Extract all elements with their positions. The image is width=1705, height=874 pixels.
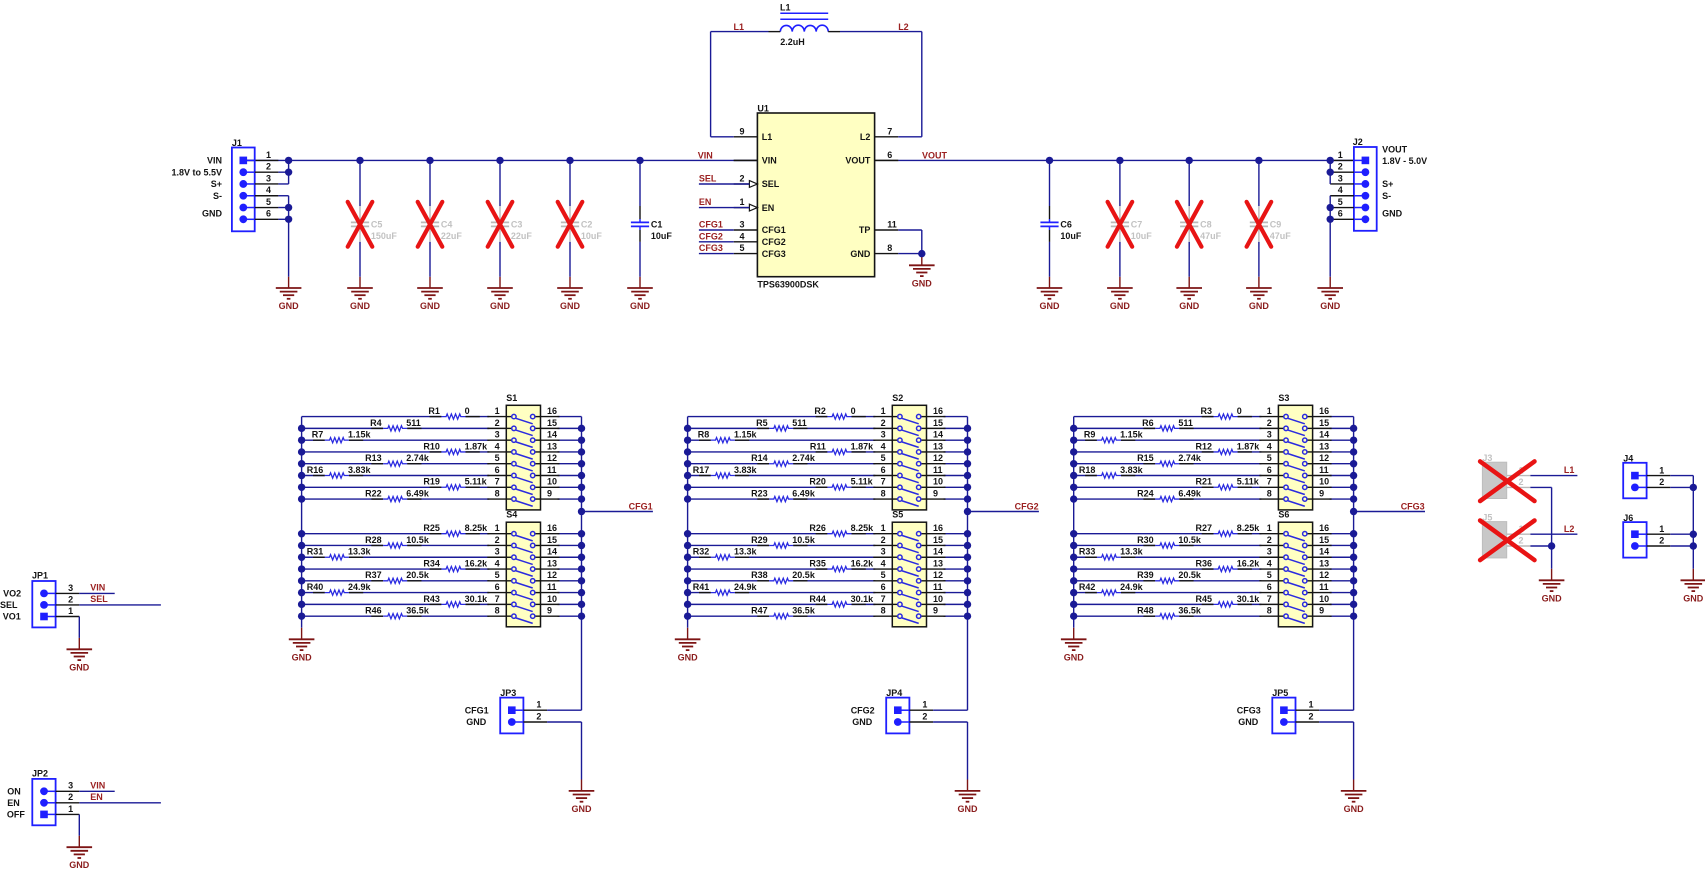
resistor R29 10.5k	[751, 535, 816, 548]
svg-text:GND: GND	[630, 301, 651, 311]
svg-text:14: 14	[933, 430, 943, 440]
svg-text:GND: GND	[466, 717, 487, 727]
wire U1 L1 to inductor	[711, 32, 769, 137]
wire row	[302, 439, 325, 441]
svg-text:6: 6	[1338, 209, 1343, 219]
resistor R2 0	[814, 406, 865, 419]
U1 pin L1 (left)	[734, 126, 773, 142]
U1 pin VOUT (right)	[845, 150, 898, 166]
svg-text:EN: EN	[699, 197, 712, 207]
svg-text:11: 11	[933, 582, 943, 592]
DIP switch S6	[1259, 510, 1331, 627]
capacitor C5 150uF (DNP)	[348, 160, 398, 288]
resistor R22 6.49k	[365, 488, 430, 501]
svg-text:8.25k: 8.25k	[1237, 523, 1261, 533]
resistor R7 1.15k	[312, 430, 372, 443]
resistor R44 30.1k	[809, 594, 874, 607]
ground below J6	[1681, 579, 1705, 581]
capacitor C3 22uF (DNP)	[488, 160, 533, 288]
svg-text:R23: R23	[751, 488, 768, 498]
wire JP5 pin2 to ground	[1319, 722, 1353, 791]
svg-text:R39: R39	[1137, 570, 1154, 580]
svg-text:R20: R20	[809, 477, 826, 487]
svg-text:4: 4	[1267, 441, 1272, 451]
svg-text:5.11k: 5.11k	[851, 477, 874, 487]
wire row	[1074, 556, 1097, 558]
wire row	[302, 580, 384, 582]
svg-text:GND: GND	[350, 301, 371, 311]
svg-text:R18: R18	[1079, 465, 1096, 475]
svg-text:CFG3: CFG3	[699, 243, 723, 253]
svg-text:S2: S2	[892, 393, 903, 403]
wire J6 pin1	[1670, 533, 1693, 535]
svg-text:2: 2	[1267, 535, 1272, 545]
svg-text:L1: L1	[780, 2, 791, 12]
svg-text:12: 12	[547, 453, 557, 463]
svg-text:1.87k: 1.87k	[465, 441, 489, 451]
resistor R27 8.25k	[1195, 523, 1260, 536]
svg-text:36.5k: 36.5k	[406, 606, 430, 616]
junctions on left bus	[1070, 425, 1077, 620]
jumper JP4	[851, 688, 933, 733]
connector J2	[1330, 137, 1427, 231]
svg-text:6: 6	[881, 582, 886, 592]
connector J1	[171, 138, 278, 231]
resistor R31 13.3k	[307, 547, 372, 560]
svg-text:JP2: JP2	[32, 769, 48, 779]
wire row	[1074, 615, 1156, 617]
svg-text:CFG1: CFG1	[762, 225, 786, 235]
resistor R28 10.5k	[365, 535, 430, 548]
svg-text:VO2: VO2	[3, 589, 21, 599]
resistor R24 6.49k	[1137, 488, 1202, 501]
svg-text:6: 6	[495, 582, 500, 592]
svg-text:R44: R44	[809, 594, 826, 604]
wire row	[1074, 451, 1214, 453]
svg-text:9: 9	[547, 488, 552, 498]
svg-text:511: 511	[1178, 418, 1193, 428]
connector J4	[1623, 454, 1670, 499]
svg-text:4: 4	[739, 231, 744, 241]
junction J1 pin6	[285, 216, 292, 223]
svg-text:20.5k: 20.5k	[792, 570, 816, 580]
wire row	[1074, 568, 1214, 570]
connector J3 (DNP)	[1482, 453, 1530, 499]
svg-text:3: 3	[266, 173, 271, 183]
wire row	[302, 556, 325, 558]
jumper JP1	[0, 571, 79, 628]
svg-text:R2: R2	[814, 406, 826, 416]
wire row	[302, 451, 442, 453]
svg-text:2: 2	[1519, 536, 1524, 546]
svg-text:R3: R3	[1200, 406, 1212, 416]
svg-text:15: 15	[547, 418, 557, 428]
svg-text:10: 10	[1319, 594, 1329, 604]
svg-text:13.3k: 13.3k	[1120, 547, 1144, 557]
svg-text:3.83k: 3.83k	[1120, 465, 1144, 475]
U1 pin L2 (right)	[860, 126, 898, 142]
net label SEL at U1	[699, 174, 750, 184]
wire U1 TP to GND	[898, 230, 922, 265]
wire JP1 pin 1 to ground	[78, 617, 80, 650]
wire VIN rail	[247, 159, 758, 161]
svg-text:R33: R33	[1079, 547, 1096, 557]
ground below C1	[627, 287, 653, 289]
svg-text:L1: L1	[734, 22, 745, 32]
resistor R4 511	[370, 418, 421, 431]
svg-text:2: 2	[536, 711, 541, 721]
svg-text:2: 2	[1659, 477, 1664, 487]
svg-text:3: 3	[739, 220, 744, 230]
svg-text:1.15k: 1.15k	[348, 430, 372, 440]
svg-text:5: 5	[881, 453, 886, 463]
wire JP2 pin 1 to ground	[78, 814, 80, 847]
svg-text:GND: GND	[1238, 717, 1259, 727]
svg-text:5.11k: 5.11k	[1237, 477, 1260, 487]
svg-text:R4: R4	[370, 418, 382, 428]
resistor R32 13.3k	[693, 547, 758, 560]
svg-text:9: 9	[1319, 606, 1324, 616]
svg-text:13: 13	[547, 558, 557, 568]
resistor R30 10.5k	[1137, 535, 1202, 548]
svg-text:1: 1	[881, 523, 886, 533]
ground below JP5	[1341, 790, 1367, 792]
svg-text:R27: R27	[1195, 523, 1212, 533]
wire row	[302, 533, 442, 535]
svg-text:3: 3	[68, 781, 73, 791]
svg-text:1: 1	[495, 523, 500, 533]
svg-text:6: 6	[881, 465, 886, 475]
svg-text:L2: L2	[860, 132, 871, 142]
svg-text:VIN: VIN	[207, 156, 222, 166]
wire row	[688, 439, 711, 441]
svg-text:9: 9	[933, 488, 938, 498]
svg-text:GND: GND	[912, 278, 933, 288]
wire row	[688, 580, 770, 582]
junction at C7	[1116, 157, 1123, 164]
svg-text:2: 2	[922, 711, 927, 721]
svg-text:OFF: OFF	[7, 810, 25, 820]
svg-text:6: 6	[1267, 465, 1272, 475]
svg-text:5: 5	[495, 453, 500, 463]
svg-text:4: 4	[1267, 558, 1272, 568]
svg-text:12: 12	[1319, 453, 1329, 463]
svg-text:10uF: 10uF	[1131, 231, 1153, 241]
svg-text:2: 2	[68, 594, 73, 604]
wire right bus of S2/S5	[967, 417, 969, 711]
capacitor C1 10uF	[631, 160, 673, 288]
svg-text:13.3k: 13.3k	[348, 547, 372, 557]
svg-text:SEL: SEL	[762, 179, 780, 189]
svg-text:R48: R48	[1137, 606, 1154, 616]
svg-text:1: 1	[68, 606, 73, 616]
wire row	[302, 463, 384, 465]
svg-text:10: 10	[547, 594, 557, 604]
U1 pin CFG1 (left)	[734, 220, 786, 236]
resistor R13 2.74k	[365, 453, 430, 466]
svg-text:R21: R21	[1195, 477, 1212, 487]
svg-text:11: 11	[1319, 582, 1329, 592]
svg-text:16.2k: 16.2k	[465, 558, 489, 568]
svg-text:ON: ON	[7, 787, 20, 797]
svg-text:S3: S3	[1278, 393, 1289, 403]
resistor R33 13.3k	[1079, 547, 1144, 560]
svg-text:1: 1	[922, 700, 927, 710]
svg-text:S1: S1	[506, 393, 517, 403]
svg-text:10: 10	[1319, 477, 1329, 487]
svg-text:R7: R7	[312, 430, 324, 440]
wire JP4 pin2 to ground	[933, 722, 967, 791]
ground below C2	[557, 287, 583, 289]
svg-text:5: 5	[1267, 453, 1272, 463]
resistor R46 36.5k	[365, 606, 430, 619]
svg-text:1: 1	[881, 406, 886, 416]
svg-text:J2: J2	[1353, 137, 1363, 147]
wire row	[688, 498, 770, 500]
svg-text:GND: GND	[292, 652, 313, 662]
wire row	[1074, 486, 1214, 488]
wire VOUT rail	[875, 159, 1354, 161]
resistor R45 30.1k	[1195, 594, 1260, 607]
svg-text:10uF: 10uF	[651, 231, 673, 241]
ground below J2	[1317, 287, 1343, 289]
svg-text:R38: R38	[751, 570, 768, 580]
svg-text:8: 8	[495, 606, 500, 616]
wire row	[1074, 463, 1156, 465]
connector J5 (DNP)	[1482, 512, 1530, 557]
svg-text:R13: R13	[365, 453, 382, 463]
svg-text:3: 3	[68, 583, 73, 593]
capacitor C6 10uF	[1040, 160, 1082, 288]
svg-text:VIN: VIN	[90, 781, 105, 791]
svg-text:15: 15	[547, 535, 557, 545]
svg-text:8: 8	[887, 243, 892, 253]
resistor R39 20.5k	[1137, 570, 1202, 583]
svg-text:0: 0	[1237, 406, 1242, 416]
svg-text:14: 14	[547, 547, 557, 557]
svg-text:5: 5	[1338, 197, 1343, 207]
svg-text:1: 1	[68, 804, 73, 814]
junction at C8	[1186, 157, 1193, 164]
ground below C5	[347, 287, 373, 289]
svg-text:0: 0	[851, 406, 856, 416]
ground below JP3	[569, 790, 595, 792]
wire row	[688, 463, 770, 465]
svg-text:R28: R28	[365, 535, 382, 545]
svg-text:0: 0	[465, 406, 470, 416]
svg-text:15: 15	[1319, 418, 1329, 428]
resistor R26 8.25k	[809, 523, 874, 536]
svg-text:GND: GND	[1040, 301, 1061, 311]
wire row	[688, 427, 770, 429]
svg-text:47uF: 47uF	[1270, 231, 1292, 241]
svg-text:11: 11	[887, 220, 897, 230]
svg-text:S4: S4	[506, 510, 517, 520]
svg-text:13: 13	[933, 558, 943, 568]
connector J6	[1623, 513, 1670, 558]
svg-text:VO1: VO1	[3, 611, 21, 621]
wire row	[1074, 603, 1214, 605]
svg-text:VIN: VIN	[90, 583, 105, 593]
svg-text:CFG2: CFG2	[762, 237, 786, 247]
svg-text:5: 5	[1267, 570, 1272, 580]
DIP switch S4	[487, 510, 559, 627]
svg-text:CFG1: CFG1	[629, 502, 653, 512]
svg-text:4: 4	[881, 441, 886, 451]
ground below C3	[487, 287, 513, 289]
svg-text:1: 1	[536, 700, 541, 710]
resistor R48 36.5k	[1137, 606, 1202, 619]
svg-text:GND: GND	[1249, 301, 1270, 311]
svg-text:10.5k: 10.5k	[406, 535, 430, 545]
svg-text:GND: GND	[852, 717, 873, 727]
svg-text:TPS63900DSK: TPS63900DSK	[757, 280, 819, 290]
wire J6 pin2 to ground	[1670, 546, 1693, 580]
svg-text:5: 5	[739, 243, 744, 253]
svg-text:3: 3	[881, 430, 886, 440]
svg-text:VOUT: VOUT	[1382, 144, 1408, 154]
wire row	[688, 615, 770, 617]
svg-text:R41: R41	[693, 582, 710, 592]
svg-text:15: 15	[933, 535, 943, 545]
svg-text:R46: R46	[365, 606, 382, 616]
wire row	[688, 603, 828, 605]
wire JP3 pin2 to ground	[547, 722, 581, 791]
resistor R41 24.9k	[693, 582, 758, 595]
wire J3 pin2 down	[1530, 487, 1551, 546]
wire row	[302, 416, 442, 418]
svg-text:11: 11	[933, 465, 943, 475]
capacitor C4 22uF (DNP)	[418, 160, 463, 288]
svg-text:SEL: SEL	[0, 600, 18, 610]
wire J1 sense tie to rail	[278, 160, 288, 184]
ground below C9	[1246, 287, 1272, 289]
svg-text:16.2k: 16.2k	[1237, 558, 1261, 568]
svg-text:L2: L2	[1564, 524, 1575, 534]
svg-text:S-: S-	[213, 191, 222, 201]
svg-text:6: 6	[1267, 582, 1272, 592]
svg-text:GND: GND	[850, 249, 871, 259]
svg-text:VOUT: VOUT	[922, 150, 948, 160]
svg-text:S+: S+	[211, 179, 222, 189]
svg-text:20.5k: 20.5k	[1178, 570, 1202, 580]
svg-text:R11: R11	[810, 441, 826, 451]
junction at C2	[566, 157, 573, 164]
junction at C4	[426, 157, 433, 164]
junction J1 pin2	[285, 168, 292, 175]
svg-text:GND: GND	[202, 209, 223, 219]
wire JP5 pin1 to bus	[1319, 709, 1353, 711]
svg-text:11: 11	[1319, 465, 1329, 475]
resistor R16 3.83k	[307, 465, 372, 478]
svg-text:1: 1	[1338, 150, 1343, 160]
ground below C7	[1107, 287, 1133, 289]
svg-text:13: 13	[1319, 441, 1329, 451]
wire left bus of S3/S6	[1073, 417, 1075, 628]
wire right bus of S3/S6	[1353, 417, 1355, 711]
wire row	[302, 568, 442, 570]
svg-text:R40: R40	[307, 582, 324, 592]
svg-text:8: 8	[881, 606, 886, 616]
svg-text:CFG3: CFG3	[1401, 502, 1425, 512]
svg-text:150uF: 150uF	[371, 231, 398, 241]
svg-text:R37: R37	[365, 570, 382, 580]
wire row	[1074, 427, 1156, 429]
U1 pin CFG3 (left)	[734, 243, 786, 259]
svg-text:5: 5	[881, 570, 886, 580]
svg-text:R5: R5	[756, 418, 768, 428]
wire J2 ground pins	[1329, 196, 1331, 288]
svg-text:2.74k: 2.74k	[406, 453, 430, 463]
junction at C6	[1046, 157, 1053, 164]
wire J1 ground pins	[278, 196, 288, 288]
junction J6 pin2	[1690, 542, 1697, 549]
svg-text:2: 2	[881, 418, 886, 428]
svg-text:R17: R17	[693, 465, 710, 475]
svg-text:16: 16	[933, 523, 943, 533]
svg-text:30.1k: 30.1k	[465, 594, 489, 604]
svg-text:R24: R24	[1137, 488, 1154, 498]
svg-text:12: 12	[547, 570, 557, 580]
capacitor C2 10uF (DNP)	[558, 160, 603, 288]
svg-text:2: 2	[1659, 536, 1664, 546]
wire J4 pin2	[1670, 486, 1693, 488]
svg-text:2: 2	[1309, 711, 1314, 721]
wire row	[1074, 439, 1097, 441]
svg-text:16: 16	[547, 406, 557, 416]
svg-text:GND: GND	[490, 301, 511, 311]
svg-text:C5: C5	[371, 219, 383, 229]
cross over J5	[1480, 521, 1534, 561]
svg-text:L1: L1	[762, 132, 773, 142]
U1 pin GND (right)	[850, 243, 898, 259]
net label SEL at JP1 pin 2	[79, 594, 161, 605]
svg-text:1: 1	[739, 197, 744, 207]
svg-text:1.87k: 1.87k	[1237, 441, 1261, 451]
svg-text:10uF: 10uF	[581, 231, 603, 241]
wire row	[688, 568, 828, 570]
ground below J5	[1539, 579, 1565, 581]
wire row	[688, 416, 828, 418]
resistor R34 16.2k	[423, 558, 488, 571]
wire row	[688, 486, 828, 488]
svg-text:8.25k: 8.25k	[465, 523, 489, 533]
net label CFG2 at U1	[699, 231, 734, 241]
svg-text:8: 8	[1267, 488, 1272, 498]
resistor R6 511	[1142, 418, 1193, 431]
svg-text:10.5k: 10.5k	[792, 535, 816, 545]
ground below JP1	[67, 648, 93, 650]
svg-text:13: 13	[547, 441, 557, 451]
svg-text:6: 6	[887, 150, 892, 160]
wire J4 pin1 down	[1670, 476, 1693, 546]
svg-text:9: 9	[1319, 488, 1324, 498]
svg-text:S-: S-	[1382, 191, 1391, 201]
svg-text:4: 4	[495, 441, 500, 451]
svg-text:R43: R43	[423, 594, 440, 604]
svg-text:6: 6	[495, 465, 500, 475]
svg-text:4: 4	[881, 558, 886, 568]
svg-text:1.15k: 1.15k	[734, 430, 758, 440]
junction J5 pin2	[1548, 542, 1555, 549]
junction J1 pin5	[285, 204, 292, 211]
svg-text:10uF: 10uF	[1060, 231, 1082, 241]
junction at C5	[356, 157, 363, 164]
ground below left bus of S1	[301, 628, 303, 640]
capacitor C8 47uF (DNP)	[1177, 160, 1222, 288]
junctions on left bus	[684, 425, 691, 620]
net label VIN at JP1 pin 3	[79, 583, 114, 594]
